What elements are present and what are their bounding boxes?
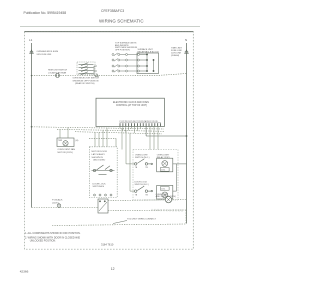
svg-text:MOTOR (120V): MOTOR (120V) <box>58 152 74 154</box>
svg-text:P1 P2 P3 P4 P5 P6 P7 P8 P9 PA: P1 P2 P3 P4 P5 P6 P7 P8 P9 PA PB PC PD P… <box>120 120 159 123</box>
receptacle internals <box>140 54 155 72</box>
svg-text:DOOR LOCK: DOOR LOCK <box>93 183 107 185</box>
wire L1 bottom run <box>32 207 99 209</box>
frame top edge solid <box>25 31 194 33</box>
svg-text:N: N <box>185 38 187 42</box>
svg-text:TB: TB <box>145 167 148 169</box>
svg-text:OVEN AND BROIL ELEM: OVEN AND BROIL ELEM <box>37 50 59 53</box>
svg-text:3164 7610: 3164 7610 <box>101 243 114 247</box>
svg-text:UNLOCKED POSITION.: UNLOCKED POSITION. <box>30 239 56 242</box>
row B wire <box>173 190 177 192</box>
svg-text:TMR: TMR <box>58 140 63 142</box>
door latch box <box>89 147 117 198</box>
svg-text:MOTOR DOOR: MOTOR DOOR <box>92 151 108 153</box>
surface switch rows <box>112 53 140 72</box>
svg-text:CFEF358AFC3: CFEF358AFC3 <box>101 9 124 13</box>
relay enclosure <box>133 150 178 201</box>
selector switch box <box>77 62 95 75</box>
svg-text:LATCH ASSY: LATCH ASSY <box>92 153 106 156</box>
row 3 <box>112 65 114 67</box>
svg-text:COIL: COIL <box>161 188 165 190</box>
svg-text:SWITCHES: SWITCHES <box>93 186 105 188</box>
svg-text:ELECTRONIC CLOCK AND OVEN: ELECTRONIC CLOCK AND OVEN <box>113 101 149 104</box>
svg-text:12: 12 <box>111 267 115 271</box>
svg-text:OFF POSITION: OFF POSITION <box>115 50 130 52</box>
connector circle on bus <box>56 74 60 78</box>
svg-text:LOCATED AT REAR: LOCATED AT REAR <box>48 71 67 74</box>
top rule <box>20 25 200 27</box>
svg-text:TOD (HOT WIRE) CONNECT: TOD (HOT WIRE) CONNECT <box>127 218 157 220</box>
svg-text:(FLASH): (FLASH) <box>171 54 179 57</box>
svg-text:HIGH LIMIT SWITCH: HIGH LIMIT SWITCH <box>48 70 68 72</box>
svg-text:OVEN SELECTOR SWITCH: OVEN SELECTOR SWITCH <box>73 78 100 80</box>
svg-text:CONTROL (AT TOP OF UNIT): CONTROL (AT TOP OF UNIT) <box>116 104 147 107</box>
fuse L1 <box>30 50 34 54</box>
wire N vertical <box>186 43 188 224</box>
wire right drop <box>185 210 187 224</box>
svg-text:Publication No. 5995419458: Publication No. 5995419458 <box>24 11 67 15</box>
svg-text:P1 BLACK: P1 BLACK <box>52 199 63 202</box>
terminal strip <box>120 123 161 126</box>
fan motor box <box>57 138 74 147</box>
drops to relay area <box>122 126 158 191</box>
relay box B <box>157 185 173 199</box>
wire bus4 <box>89 137 116 139</box>
svg-text:L1: L1 <box>29 38 33 42</box>
wire bottom long run <box>52 224 186 226</box>
svg-text:(H): (H) <box>76 140 79 142</box>
schematic frame <box>25 32 194 250</box>
wire L1 vertical <box>31 43 33 208</box>
relay box A <box>157 158 173 172</box>
terminal drops <box>120 126 140 133</box>
svg-text:OVEN VENT FAN: OVEN VENT FAN <box>58 148 76 151</box>
svg-text:SWITCH (N.C.): SWITCH (N.C.) <box>135 184 150 186</box>
svg-text:UNLOCKED: UNLOCKED <box>93 160 106 162</box>
svg-text:COIL: COIL <box>161 169 165 171</box>
row 2 <box>112 59 114 61</box>
oven lamp <box>165 196 171 202</box>
latch mechanism <box>92 165 115 175</box>
row A wire to N <box>173 163 187 165</box>
fuse on bus <box>95 74 98 77</box>
svg-text:42366: 42366 <box>20 270 29 274</box>
svg-text:WIRING SCHEMATIC: WIRING SCHEMATIC <box>99 19 144 24</box>
svg-text:SHOWN IN OFF POSITION: SHOWN IN OFF POSITION <box>73 80 99 82</box>
fuse N <box>185 50 189 54</box>
door lock motor <box>98 199 108 213</box>
svg-text:SWITCH (N.O.): SWITCH (N.O.) <box>135 157 150 159</box>
row 4 <box>112 70 114 72</box>
wire bus3 <box>75 132 162 134</box>
svg-text:SHOWN IN: SHOWN IN <box>92 157 104 159</box>
selector contacts <box>79 63 94 75</box>
svg-text:240V FUSE LINK: 240V FUSE LINK <box>37 54 52 56</box>
svg-text:TB: TB <box>135 167 138 169</box>
drops to latch box <box>95 128 107 147</box>
wire lamp feed <box>108 199 187 202</box>
feeder bracket <box>94 65 97 67</box>
svg-text:TB: TB <box>145 194 148 196</box>
relay row A switch <box>135 159 153 165</box>
latch terminals <box>94 194 113 196</box>
svg-text:RECEPTACLE BLOCK: RECEPTACLE BLOCK <box>138 50 160 53</box>
row 1 <box>112 54 114 56</box>
relay row B switch <box>135 186 153 192</box>
wire control to N <box>145 126 147 136</box>
wire bus2 <box>57 129 164 131</box>
svg-text:TB: TB <box>135 194 138 196</box>
svg-text:1. ALL COMPONENTS SHOWN IN OF: 1. ALL COMPONENTS SHOWN IN OFF POSITION. <box>25 232 81 235</box>
wire bus y75.5 <box>32 74 187 76</box>
svg-text:(REAR OF SWITCH): (REAR OF SWITCH) <box>75 82 95 85</box>
wire bus1 <box>32 127 165 129</box>
receptacle box <box>137 53 159 74</box>
electronic oven control box <box>96 98 164 126</box>
